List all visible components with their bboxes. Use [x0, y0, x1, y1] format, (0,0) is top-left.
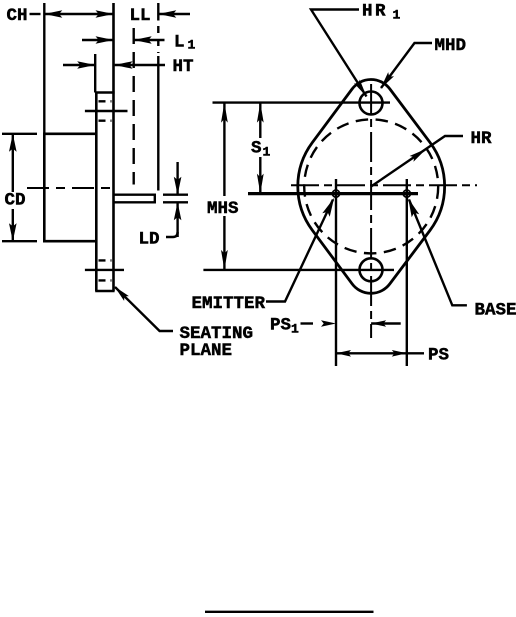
svg-text:1: 1 — [188, 38, 196, 53]
CD bottom extension line — [2, 240, 37, 242]
emitter pin extension line — [335, 179, 337, 366]
top mounting hole — [360, 92, 383, 115]
seating plane arrow — [115, 287, 129, 301]
horizontal centerline — [291, 184, 477, 186]
svg-text:EMITTER: EMITTER — [192, 294, 266, 314]
base pin circle — [403, 190, 410, 197]
lead end cap — [154, 194, 156, 204]
L1 arrow pointing right — [96, 36, 114, 44]
svg-text:PLANE: PLANE — [180, 341, 233, 361]
PS right tail — [407, 352, 424, 354]
bottom rule line — [205, 611, 374, 613]
base leader line — [409, 200, 467, 306]
LL arrow — [158, 10, 176, 18]
svg-text:1: 1 — [393, 8, 401, 23]
svg-text:HR: HR — [471, 129, 493, 149]
flange bottom cap — [95, 290, 114, 293]
HR arrow — [410, 149, 427, 162]
LD top arrow line — [176, 162, 178, 195]
dimension S1 line upper — [259, 103, 261, 138]
svg-text:PS: PS — [428, 346, 449, 366]
svg-text:BASE: BASE — [475, 301, 516, 321]
bottom mounting hole — [360, 258, 383, 281]
emitter pin circle — [332, 190, 339, 197]
lead diameter extension tick bottom — [163, 201, 188, 203]
dimension PS line — [336, 352, 407, 354]
dimension MHS line upper — [223, 103, 225, 196]
dashed can circle — [304, 119, 438, 253]
mounting flange left edge — [95, 93, 98, 292]
top mounting hole centerline — [85, 110, 128, 112]
extension line flange left top — [94, 54, 96, 93]
svg-text:LL: LL — [130, 6, 151, 26]
CD top extension line — [2, 133, 37, 135]
svg-text:CH: CH — [7, 6, 28, 26]
lead top edge — [114, 193, 156, 195]
LD arrow up — [174, 202, 182, 220]
dashed extension line at lead mid — [132, 28, 134, 185]
lead bottom edge — [114, 201, 156, 203]
MHD arrow — [381, 72, 395, 89]
svg-text:CD: CD — [5, 191, 26, 211]
svg-text:LD: LD — [139, 230, 160, 250]
dimension CH line — [44, 13, 113, 15]
CD dimension line upper — [12, 134, 14, 192]
svg-text:L: L — [174, 33, 185, 53]
mounting flange right edge — [112, 3, 115, 291]
extension line can top edge — [43, 3, 45, 134]
vertical centerline — [370, 84, 372, 338]
package horizontal centerline — [27, 187, 114, 189]
dimension LL arrow tail — [158, 13, 190, 15]
dimension HT left tail — [63, 64, 95, 66]
TO-3 package outline — [298, 79, 445, 293]
HT arrow right — [115, 61, 133, 69]
svg-text:1: 1 — [291, 322, 299, 337]
dimension MHS line lower — [223, 216, 225, 270]
svg-text:MHS: MHS — [207, 199, 239, 219]
bottom extension line MHS — [203, 269, 394, 271]
CD dimension line lower — [12, 209, 14, 241]
top hole centerline / S1 MHS top extension line — [213, 101, 391, 103]
dimension CH leader — [30, 13, 41, 15]
S1 arrow down — [257, 174, 264, 194]
extension line lead end (top) — [157, 3, 159, 21]
CD arrow down — [9, 223, 17, 241]
seating plane leader line — [115, 287, 173, 331]
dimension HT right tail — [115, 64, 165, 66]
HR1 arrow — [354, 80, 367, 97]
pin row line — [248, 192, 418, 195]
dimension S1 line lower — [259, 157, 261, 194]
CH arrow left — [44, 10, 62, 18]
emitter arrow — [322, 198, 334, 217]
svg-text:HT: HT — [173, 57, 194, 77]
PS1 right tail — [371, 322, 401, 324]
base pin extension line — [406, 179, 408, 366]
LD leader hook — [166, 232, 178, 237]
hidden bottom mounting hole upper edge — [99, 259, 112, 261]
svg-text:MHD: MHD — [435, 36, 467, 56]
hidden top mounting hole lower edge — [99, 119, 112, 121]
MHD leader line — [381, 43, 432, 88]
can body outline — [44, 134, 96, 241]
PS1 arrow at pin line — [321, 320, 336, 327]
PS1 arrow at centerline — [371, 320, 386, 327]
lead diameter extension tick top — [163, 193, 188, 195]
L1 arrow pointing left — [134, 36, 152, 44]
flange top cap — [95, 91, 114, 94]
extension line lead end (lower solid) — [157, 56, 159, 191]
PS1 leader — [301, 322, 314, 324]
LD bottom arrow line — [176, 202, 178, 237]
dimension L1 right tail — [134, 39, 165, 41]
svg-text:1: 1 — [263, 145, 271, 160]
bottom mounting hole centerline — [85, 269, 124, 271]
emitter leader line — [266, 200, 333, 302]
PS arrow left — [336, 350, 351, 357]
LD arrow down — [174, 177, 182, 195]
hidden bottom mounting hole lower edge — [99, 279, 112, 281]
svg-text:HR: HR — [362, 2, 388, 22]
HT arrow left — [77, 61, 95, 69]
CD arrow up — [9, 134, 17, 152]
HR1 leader line — [311, 10, 367, 97]
extension line lead end dashed mid — [157, 26, 159, 53]
MHS arrow down — [221, 250, 228, 270]
PS arrow right — [392, 350, 407, 357]
HR radius line — [371, 136, 463, 186]
dimension L1 left tail — [82, 39, 114, 41]
CH arrow right — [96, 10, 114, 18]
base arrow — [408, 198, 419, 217]
hidden top mounting hole upper edge — [99, 100, 112, 102]
S1 arrow up — [257, 103, 264, 123]
svg-text:S: S — [251, 139, 262, 159]
svg-text:PS: PS — [270, 316, 291, 336]
MHS arrow up — [221, 103, 228, 123]
